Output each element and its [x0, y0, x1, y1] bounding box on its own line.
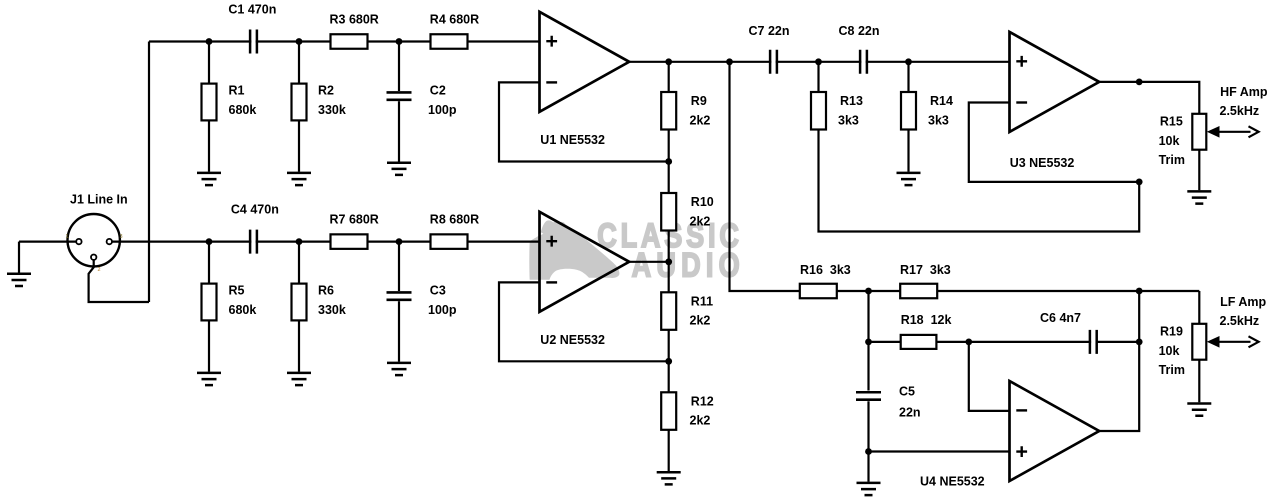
- ground: [197, 373, 221, 385]
- label C6 4n7: [1040, 311, 1081, 325]
- ground: [197, 173, 221, 185]
- connector J1 XLR Line In: [68, 214, 120, 266]
- wire C5 branch vertical: [867, 291, 869, 391]
- capacitor C2: [387, 92, 412, 99]
- wire C3 top: [398, 242, 400, 291]
- ground: [287, 373, 311, 385]
- wire C2 top: [398, 42, 400, 92]
- label C8 22n: [839, 24, 880, 38]
- trimmer wiper / HF output arrow: [1207, 126, 1259, 138]
- ground: [897, 173, 921, 185]
- junction dot LF tap: [726, 58, 733, 65]
- svg-text:R8 680R: R8 680R: [430, 212, 479, 226]
- svg-text:2.5kHz: 2.5kHz: [1220, 314, 1260, 328]
- wire second row segment 4: [468, 241, 540, 243]
- junction dot U2 feedback: [665, 358, 672, 365]
- svg-text:AUDIO: AUDIO: [632, 245, 745, 284]
- wire R14 vertical: [907, 62, 909, 172]
- pin number 3: [120, 234, 123, 240]
- op-amp U2: [540, 212, 630, 312]
- junction dot LF output node: [1136, 288, 1143, 295]
- trimmer R19: [1192, 324, 1206, 360]
- label R1 680k: [229, 84, 257, 117]
- svg-text:C3: C3: [430, 284, 446, 298]
- resistor R11: [661, 292, 676, 330]
- junction dot U4 inverting node: [965, 339, 972, 346]
- label R8 680R: [430, 212, 479, 226]
- wire U3 feedback: [969, 103, 1139, 182]
- capacitor C4: [250, 230, 257, 254]
- svg-text:2.5kHz: 2.5kHz: [1220, 104, 1260, 118]
- resistor R13: [811, 92, 826, 130]
- label C1 470n: [228, 3, 276, 17]
- svg-text:C1 470n: C1 470n: [228, 3, 276, 17]
- svg-text:U3 NE5532: U3 NE5532: [1010, 156, 1075, 170]
- wire top row segment 2: [256, 40, 332, 42]
- junction dot LF node: [865, 288, 872, 295]
- resistor R2: [292, 84, 307, 121]
- capacitor C1: [250, 30, 257, 54]
- label R4 680R: [430, 12, 479, 26]
- svg-text:R3 680R: R3 680R: [330, 12, 379, 26]
- ground: [387, 363, 411, 375]
- svg-text:R19: R19: [1160, 325, 1183, 339]
- wire R6 vertical: [298, 242, 300, 372]
- junction dot R1 top: [206, 38, 213, 45]
- wire C6 row segment 1: [969, 341, 1091, 343]
- wire R19 bottom: [1198, 360, 1200, 403]
- label C7 22n: [749, 24, 790, 38]
- label R17 3k3: [900, 263, 951, 277]
- svg-text:330k: 330k: [318, 103, 346, 117]
- svg-text:J1 Line In: J1 Line In: [70, 193, 128, 207]
- label R7 680R: [330, 212, 379, 226]
- svg-text:C7 22n: C7 22n: [749, 24, 790, 38]
- svg-text:C8 22n: C8 22n: [839, 24, 880, 38]
- svg-text:100p: 100p: [428, 303, 457, 317]
- resistor R4: [431, 34, 468, 49]
- wire U2 output: [629, 261, 669, 263]
- wire second row segment 1: [112, 241, 251, 243]
- resistor R12: [661, 392, 676, 430]
- resistor R7: [331, 234, 368, 249]
- label U1 NE5532: [540, 133, 605, 147]
- junction dot ladder top: [665, 58, 672, 65]
- wire U2 feedback: [499, 282, 669, 361]
- label R13 3k3: [838, 94, 863, 127]
- junction dot U3 output: [1136, 79, 1143, 86]
- junction dot R14 top: [905, 58, 912, 65]
- label R2 330k: [318, 84, 346, 117]
- svg-text:R12: R12: [691, 394, 714, 408]
- svg-text:2k2: 2k2: [690, 113, 711, 127]
- resistor R16: [800, 284, 837, 299]
- wire U3 output: [1099, 82, 1199, 114]
- wire LF tap vertical: [730, 62, 800, 291]
- svg-text:R15: R15: [1160, 115, 1183, 129]
- op-amp U3: [1010, 32, 1100, 132]
- wire top row segment 1: [149, 40, 251, 42]
- wire top row segment 4: [468, 40, 540, 42]
- wire R2 vertical: [298, 42, 300, 172]
- label R16 3k3: [800, 263, 851, 277]
- wire C3 bottom: [398, 301, 400, 362]
- svg-text:R16 3k3: R16 3k3: [800, 263, 851, 277]
- label R19 10k Trim: [1159, 325, 1185, 378]
- svg-text:R5: R5: [229, 284, 245, 298]
- svg-text:R1: R1: [229, 84, 245, 98]
- svg-text:R17 3k3: R17 3k3: [900, 263, 951, 277]
- wire left vertical to top row: [148, 42, 150, 303]
- wire R18 right: [936, 341, 968, 343]
- label HF Amp: [1220, 85, 1268, 118]
- label R9 2k2: [690, 94, 711, 127]
- capacitor C6: [1090, 330, 1097, 354]
- svg-text:C4 470n: C4 470n: [231, 203, 279, 217]
- label C3 100p: [428, 284, 457, 317]
- label U2 NE5532: [540, 333, 605, 347]
- junction dot C3 top: [396, 238, 403, 245]
- trimmer wiper / LF output arrow: [1207, 336, 1259, 348]
- svg-text:HF Amp: HF Amp: [1220, 85, 1268, 99]
- label C5 22n: [899, 384, 921, 419]
- wire LF row segment 3: [937, 290, 1199, 292]
- svg-text:Trim: Trim: [1159, 153, 1185, 167]
- wire U1 output row segment 3: [866, 61, 1010, 63]
- svg-text:22n: 22n: [899, 406, 921, 420]
- svg-text:R2: R2: [318, 84, 334, 98]
- wire second row segment 3: [368, 241, 433, 243]
- wire R1 vertical: [208, 42, 210, 172]
- wire J1 pin1 to ground: [19, 241, 77, 243]
- wire second row segment 2: [256, 241, 332, 243]
- resistor R3: [331, 34, 368, 49]
- svg-text:R9: R9: [691, 94, 707, 108]
- wire U4 minus input: [969, 342, 1010, 411]
- svg-text:R10: R10: [691, 195, 714, 209]
- wire U1 output row segment 1: [629, 61, 771, 63]
- resistor R10: [661, 193, 676, 231]
- svg-text:R13: R13: [840, 94, 863, 108]
- svg-text:U4 NE5532: U4 NE5532: [920, 475, 985, 489]
- junction dot U2 output: [665, 258, 672, 265]
- svg-text:2: 2: [98, 267, 101, 273]
- label R15 10k Trim: [1159, 115, 1185, 168]
- svg-text:680k: 680k: [229, 303, 257, 317]
- wire R5 vertical: [208, 242, 210, 372]
- wire LF row segment 2: [837, 290, 900, 292]
- ground: [7, 274, 31, 286]
- svg-text:R4 680R: R4 680R: [430, 12, 479, 26]
- trimmer R15: [1192, 114, 1206, 150]
- label R5 680k: [229, 284, 257, 317]
- junction dot C6 right: [1136, 339, 1143, 346]
- wire C5 bottom: [867, 401, 869, 482]
- label R12 2k2: [690, 394, 714, 427]
- wire U1 output row segment 2: [776, 61, 862, 63]
- svg-text:3k3: 3k3: [928, 113, 949, 127]
- op-amp U1: [540, 12, 630, 112]
- svg-text:330k: 330k: [318, 303, 346, 317]
- svg-text:LF Amp: LF Amp: [1220, 295, 1266, 309]
- resistor R1: [202, 84, 217, 121]
- svg-text:2k2: 2k2: [690, 214, 711, 228]
- capacitor C7: [770, 50, 777, 74]
- svg-text:1: 1: [65, 234, 68, 240]
- svg-text:R11: R11: [691, 294, 713, 308]
- junction dot R13 top: [815, 58, 822, 65]
- svg-text:R14: R14: [930, 94, 953, 108]
- capacitor C3: [387, 292, 412, 299]
- pin number 2: [98, 267, 101, 273]
- ground: [657, 472, 681, 484]
- label C2 100p: [428, 84, 457, 117]
- pin number 1: [65, 234, 68, 240]
- wire U1 feedback: [499, 82, 669, 161]
- label R3 680R: [330, 12, 379, 26]
- svg-text:2k2: 2k2: [690, 414, 711, 428]
- junction dot R6 top: [296, 238, 303, 245]
- label R14 3k3: [928, 94, 953, 127]
- svg-text:100p: 100p: [428, 103, 457, 117]
- svg-text:2k2: 2k2: [690, 314, 711, 328]
- resistor R6: [292, 284, 307, 321]
- ground: [857, 483, 881, 495]
- ground: [387, 163, 411, 175]
- junction dot U3 feedback: [1136, 179, 1143, 186]
- label LF Amp: [1220, 295, 1267, 328]
- label C4 470n: [231, 203, 279, 217]
- resistor R14: [901, 92, 916, 130]
- wire U4 output: [1099, 291, 1139, 431]
- Classic Audio watermark logo: [529, 216, 745, 285]
- resistor R5: [202, 284, 217, 321]
- resistor R9: [661, 92, 676, 130]
- label R6 330k: [318, 284, 346, 317]
- label U3 NE5532: [1010, 156, 1075, 170]
- wire ladder vertical: [668, 62, 670, 471]
- svg-text:680k: 680k: [229, 103, 257, 117]
- svg-text:U2 NE5532: U2 NE5532: [540, 333, 605, 347]
- svg-text:R6: R6: [318, 284, 334, 298]
- svg-text:3k3: 3k3: [838, 113, 859, 127]
- resistor R18: [901, 335, 937, 349]
- capacitor C8: [860, 50, 867, 74]
- ground: [1187, 404, 1211, 416]
- wire R19 top: [1198, 291, 1200, 324]
- wire J1 pin2 jog to left vertical: [89, 260, 149, 302]
- resistor R8: [431, 234, 468, 249]
- resistor R17: [900, 284, 937, 299]
- label U4 NE5532: [920, 475, 985, 489]
- label R18 12k: [901, 313, 952, 327]
- junction dot R18 left: [865, 339, 872, 346]
- wire C2 bottom: [398, 101, 400, 161]
- junction dot U4 plus node: [865, 448, 872, 455]
- wire top row segment 3: [368, 40, 433, 42]
- junction dot U1 feedback: [665, 158, 672, 165]
- svg-text:3: 3: [120, 234, 123, 240]
- svg-text:10k: 10k: [1159, 344, 1180, 358]
- svg-text:R7 680R: R7 680R: [330, 212, 379, 226]
- junction dot C2 top: [396, 38, 403, 45]
- ground: [287, 173, 311, 185]
- junction dot R5 top: [206, 238, 213, 245]
- wire U4 plus input: [869, 450, 1010, 452]
- wire R15 bottom: [1198, 150, 1200, 191]
- svg-text:R18 12k: R18 12k: [901, 313, 952, 327]
- wire R18 row: [869, 341, 901, 343]
- wire input ground stub: [18, 242, 20, 273]
- svg-text:U1 NE5532: U1 NE5532: [540, 133, 605, 147]
- wire C6 row segment 2: [1096, 341, 1140, 343]
- label R11 2k2: [690, 294, 714, 327]
- capacitor C5: [856, 392, 881, 399]
- op-amp U4: [1010, 381, 1100, 481]
- junction dot R2 top: [296, 38, 303, 45]
- label J1 Line In: [70, 193, 128, 207]
- svg-text:C2: C2: [430, 84, 446, 98]
- label R10 2k2: [690, 195, 714, 228]
- svg-text:Trim: Trim: [1159, 363, 1185, 377]
- svg-text:C5: C5: [899, 384, 915, 398]
- wire R13 vertical and feedback: [819, 62, 1140, 232]
- svg-text:C6 4n7: C6 4n7: [1040, 311, 1081, 325]
- svg-text:10k: 10k: [1159, 134, 1180, 148]
- ground: [1187, 191, 1211, 203]
